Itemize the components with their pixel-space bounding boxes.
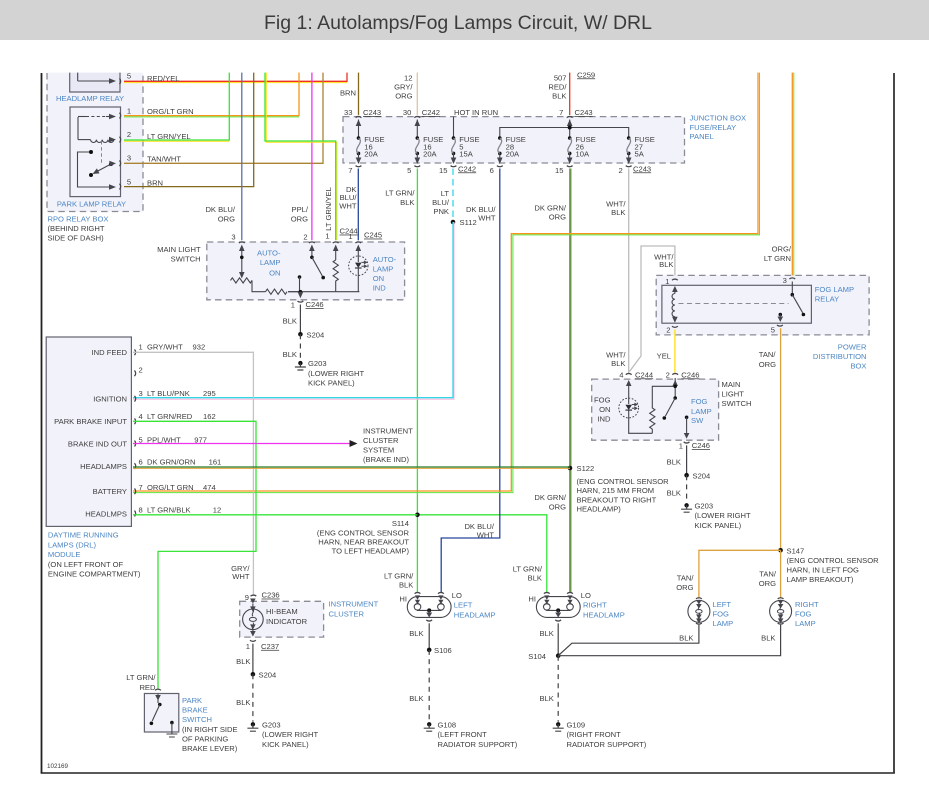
svg-text:C246: C246 <box>692 441 710 450</box>
svg-text:SWITCH: SWITCH <box>171 254 201 263</box>
svg-text:1: 1 <box>139 343 143 352</box>
svg-text:LT GRN/YEL: LT GRN/YEL <box>147 132 191 141</box>
svg-text:PARK BRAKE INPUT: PARK BRAKE INPUT <box>54 417 127 426</box>
svg-text:HOT IN RUN: HOT IN RUN <box>454 108 498 117</box>
splice S122 <box>568 464 669 513</box>
svg-text:ON: ON <box>599 405 610 414</box>
top clip band <box>0 40 929 73</box>
svg-text:FUSE/RELAY: FUSE/RELAY <box>690 123 737 132</box>
svg-text:3: 3 <box>783 276 787 285</box>
wire BLK dashed from S204 to G203 <box>236 674 253 722</box>
svg-text:C242: C242 <box>422 108 440 117</box>
internal feed rail from pin 7 to fuses 28/26/27 <box>500 120 629 139</box>
svg-text:HI: HI <box>528 595 536 604</box>
label DAYTIME RUNNING LAMPS (DRL) MODULE <box>48 531 141 579</box>
MLS pin 1 C245 <box>348 231 382 251</box>
RPO relay box (dashed, behind right side of dash) <box>47 71 143 212</box>
svg-text:LAMP: LAMP <box>691 407 712 416</box>
svg-text:1: 1 <box>665 277 669 286</box>
svg-text:LT GRN/: LT GRN/ <box>513 565 543 574</box>
svg-text:BATTERY: BATTERY <box>93 487 127 496</box>
fuse panel bottom pin 2 C243 <box>618 164 651 175</box>
svg-text:5A: 5A <box>635 150 645 159</box>
DRL pin 4 PARK BRAKE INPUT <box>54 412 216 426</box>
ground G108 (left front radiator support) <box>424 720 518 748</box>
wire DK BLU/ORG to main light switch pin 3 <box>205 71 241 240</box>
svg-text:PPL/: PPL/ <box>292 205 309 214</box>
wire BLK dashed from S204 to G203 <box>283 334 301 361</box>
park lamp relay pin 2 <box>120 130 132 143</box>
svg-text:S147: S147 <box>787 546 805 555</box>
svg-text:BLK: BLK <box>528 574 542 583</box>
svg-text:BREAKOUT TO RIGHT: BREAKOUT TO RIGHT <box>577 495 657 504</box>
svg-text:IND FEED: IND FEED <box>92 348 128 357</box>
fuse panel bottom pin 7 <box>348 166 361 175</box>
svg-text:LAMP: LAMP <box>713 619 734 628</box>
fuse panel top pin 30 C242 <box>403 108 440 126</box>
svg-text:POWER: POWER <box>838 342 867 351</box>
svg-text:15: 15 <box>555 166 563 175</box>
svg-text:LT BLU/PNK: LT BLU/PNK <box>147 389 190 398</box>
svg-text:ORG: ORG <box>549 502 566 511</box>
svg-text:12: 12 <box>404 73 412 82</box>
park lamp relay pin 5 <box>120 177 132 189</box>
svg-text:20A: 20A <box>506 150 520 159</box>
svg-text:BRAKE: BRAKE <box>182 706 208 715</box>
svg-text:12: 12 <box>213 505 221 514</box>
fog switch bottom pin 1 C246 <box>679 441 710 450</box>
instrument cluster box (hi-beam) <box>240 601 324 637</box>
right fog lamp <box>770 598 792 624</box>
svg-text:932: 932 <box>193 343 206 352</box>
svg-text:9: 9 <box>245 593 249 602</box>
wire ORG/LT GRN from DRL battery pin 7 up and over to top exit <box>133 71 760 493</box>
svg-text:LAMP: LAMP <box>795 619 816 628</box>
svg-text:ENGINE COMPARTMENT): ENGINE COMPARTMENT) <box>48 570 141 579</box>
park lamp relay actuator dashed link <box>101 141 103 163</box>
svg-text:G109: G109 <box>567 720 586 729</box>
DRL module box <box>46 337 131 526</box>
svg-text:162: 162 <box>203 412 216 421</box>
svg-text:RELAY: RELAY <box>815 294 839 303</box>
svg-text:(LEFT FRONT: (LEFT FRONT <box>438 730 488 739</box>
wire BLK bus from S104 to left fog lamp <box>558 625 699 656</box>
wire ORG/LT GRN into fog lamp relay pin 3 <box>764 71 794 278</box>
svg-text:BLK: BLK <box>679 634 693 643</box>
svg-text:30: 30 <box>403 108 411 117</box>
wire LT GRN/BLK from DRL pin 8 to S114 <box>133 514 417 516</box>
svg-text:8: 8 <box>139 505 143 514</box>
svg-text:G203: G203 <box>262 720 281 729</box>
svg-text:ORG/: ORG/ <box>772 245 792 254</box>
svg-text:HEADLAMP: HEADLAMP <box>454 611 496 620</box>
DRL pin 2 <box>135 365 143 376</box>
svg-text:SIDE OF DASH): SIDE OF DASH) <box>48 233 105 242</box>
svg-text:RIGHT: RIGHT <box>583 601 607 610</box>
svg-text:S204: S204 <box>307 330 325 339</box>
svg-text:BLK: BLK <box>283 350 297 359</box>
svg-text:C243: C243 <box>633 164 651 173</box>
svg-text:INSTRUMENT: INSTRUMENT <box>329 600 379 609</box>
svg-text:C242: C242 <box>458 164 476 173</box>
svg-text:2: 2 <box>666 325 670 334</box>
svg-text:33: 33 <box>344 108 352 117</box>
svg-text:RED/: RED/ <box>548 83 567 92</box>
svg-text:(BEHIND RIGHT: (BEHIND RIGHT <box>48 224 105 233</box>
svg-text:PARK LAMP RELAY: PARK LAMP RELAY <box>57 199 126 208</box>
wire TAN/ORG from fog relay pin 5 to S147 <box>759 328 781 550</box>
fog lamp relay pin 3 <box>783 276 796 285</box>
junction box fuse/relay panel box <box>343 117 685 163</box>
svg-text:TAN/: TAN/ <box>759 350 777 359</box>
park brake switch box <box>144 694 178 733</box>
svg-text:KICK PANEL): KICK PANEL) <box>308 378 355 387</box>
svg-text:ORG: ORG <box>218 214 235 223</box>
svg-text:2: 2 <box>303 232 307 241</box>
svg-text:HARN, IN LEFT FOG: HARN, IN LEFT FOG <box>787 565 860 574</box>
svg-text:CLUSTER: CLUSTER <box>329 610 365 619</box>
wire PPL/WHT from DRL pin 5 to instrument cluster (brake ind) <box>133 427 413 465</box>
svg-text:C246: C246 <box>681 370 699 379</box>
svg-text:RED: RED <box>139 683 156 692</box>
svg-text:7: 7 <box>559 108 563 117</box>
splice S147 <box>778 546 879 584</box>
park lamp relay pin 3 <box>120 154 132 167</box>
svg-text:S204: S204 <box>693 471 711 480</box>
svg-text:474: 474 <box>203 483 216 492</box>
svg-text:BLK: BLK <box>552 92 566 101</box>
splice S104 <box>528 652 560 661</box>
svg-text:IGNITION: IGNITION <box>93 394 127 403</box>
MLS auto-lamp on switch <box>298 251 325 292</box>
fuse 16 20A (second) <box>415 135 444 164</box>
svg-text:Fig 1: Autolamps/Fog Lamps Cir: Fig 1: Autolamps/Fog Lamps Circuit, W/ D… <box>264 12 652 34</box>
svg-text:WHT: WHT <box>232 572 250 581</box>
svg-text:BLK: BLK <box>761 634 775 643</box>
frame border left <box>41 73 43 773</box>
svg-text:WHT: WHT <box>478 213 496 222</box>
wire TAN/ORG from S147 to left fog lamp <box>676 550 780 597</box>
fuse panel bottom pin 5 <box>407 166 420 175</box>
svg-text:5: 5 <box>127 72 131 81</box>
svg-text:ORG/LT GRN: ORG/LT GRN <box>147 107 194 116</box>
frame border bottom <box>41 772 895 774</box>
svg-text:1: 1 <box>127 107 131 116</box>
svg-text:BLU/: BLU/ <box>432 198 450 207</box>
svg-text:BRN: BRN <box>340 88 356 97</box>
svg-text:(ENG CONTROL SENSOR: (ENG CONTROL SENSOR <box>317 528 410 537</box>
svg-text:BLK: BLK <box>667 458 681 467</box>
svg-text:HEADLAMPS: HEADLAMPS <box>80 462 127 471</box>
svg-text:RADIATOR SUPPORT): RADIATOR SUPPORT) <box>567 740 647 749</box>
svg-text:WHT: WHT <box>339 202 357 211</box>
svg-text:DAYTIME RUNNING: DAYTIME RUNNING <box>48 531 119 540</box>
MLS auto-lamp on indicator LED <box>349 251 368 292</box>
svg-text:FOG LAMP: FOG LAMP <box>815 285 854 294</box>
left fog lamp <box>688 598 710 624</box>
svg-text:ORG: ORG <box>291 214 308 223</box>
svg-text:HEADLAMP): HEADLAMP) <box>577 505 622 514</box>
ground G203 (lower right kick panel, hi-beam) <box>247 720 318 748</box>
wire RED/BLK into fuse panel pin 7 C243 <box>548 70 595 115</box>
wire LT BLU/PNK dashed from fuse 15 C242 to S112 <box>432 169 453 223</box>
splice S204 (fog switch) <box>684 471 710 480</box>
fog lamp relay actuator dashed link <box>679 302 789 304</box>
frame border right <box>893 73 895 773</box>
svg-text:JUNCTION BOX: JUNCTION BOX <box>690 114 747 123</box>
svg-text:LT GRN/: LT GRN/ <box>384 572 414 581</box>
svg-text:BLK: BLK <box>400 198 414 207</box>
DRL pin 6 HEADLAMPS <box>80 458 221 472</box>
svg-text:PANEL: PANEL <box>690 132 714 141</box>
svg-text:DK BLU/: DK BLU/ <box>205 205 235 214</box>
svg-text:AUTO-: AUTO- <box>373 255 397 264</box>
svg-text:HI: HI <box>399 595 407 604</box>
svg-text:ON: ON <box>373 274 384 283</box>
svg-text:WHT: WHT <box>477 530 495 539</box>
fog lamp relay pin 1 <box>665 277 678 286</box>
fuse 26 10A <box>567 135 596 164</box>
svg-text:2: 2 <box>139 365 143 374</box>
svg-text:1: 1 <box>348 232 352 241</box>
svg-text:LT GRN/: LT GRN/ <box>126 673 156 682</box>
svg-text:BLK: BLK <box>539 694 553 703</box>
svg-text:TAN/: TAN/ <box>759 569 777 578</box>
svg-text:G203: G203 <box>695 501 714 510</box>
svg-text:RIGHT: RIGHT <box>795 600 819 609</box>
svg-text:7: 7 <box>139 483 143 492</box>
svg-text:(RIGHT FRONT: (RIGHT FRONT <box>567 730 622 739</box>
wire RED/YEL from headlamp relay pin 5 <box>124 71 347 83</box>
wire TAN/WHT from park lamp relay pin 3 <box>124 71 323 163</box>
ground G203 (lower right kick panel, autolamp) <box>295 359 365 387</box>
MLS pin 2 <box>303 232 314 251</box>
splice S114 <box>317 513 420 556</box>
ground G109 (right front radiator support) <box>553 720 647 748</box>
hi-beam pin 1 C237 <box>246 640 279 651</box>
svg-text:C243: C243 <box>363 108 381 117</box>
svg-text:BLK: BLK <box>611 208 625 217</box>
wire BLK dashed S106 to G108 <box>409 650 429 722</box>
fuse panel top pin 33 C243 <box>344 108 381 126</box>
MLS resistor <box>333 251 338 292</box>
svg-text:DK GRN/ORN: DK GRN/ORN <box>147 458 196 467</box>
svg-text:15: 15 <box>439 166 447 175</box>
svg-text:161: 161 <box>209 458 222 467</box>
svg-text:6: 6 <box>490 166 494 175</box>
wire DK BLU/WHT from fuse 28 to left headlamp LO <box>441 169 500 593</box>
svg-text:LO: LO <box>452 591 462 600</box>
svg-text:SW: SW <box>691 416 704 425</box>
svg-text:OF PARKING: OF PARKING <box>182 734 228 743</box>
svg-text:ON: ON <box>269 268 280 277</box>
svg-text:ORG/LT GRN: ORG/LT GRN <box>147 483 194 492</box>
svg-text:LT: LT <box>441 189 450 198</box>
svg-text:LEFT: LEFT <box>713 600 732 609</box>
wire BLK from C246 to S204 <box>283 305 301 335</box>
svg-text:ORG: ORG <box>759 579 776 588</box>
svg-text:BRAKE LEVER): BRAKE LEVER) <box>182 744 238 753</box>
label HOT IN RUN with feed line <box>454 108 499 138</box>
svg-text:ORG: ORG <box>549 212 566 221</box>
wire BLK dashed to G203 (fog switch) <box>667 475 687 503</box>
wire ORG/LT GRN from park lamp relay pin 1 <box>124 71 299 117</box>
headlamp relay box <box>70 71 120 92</box>
svg-text:BLK: BLK <box>236 657 250 666</box>
svg-text:GRY/WHT: GRY/WHT <box>147 343 183 352</box>
svg-text:DISTRIBUTION: DISTRIBUTION <box>813 352 867 361</box>
wire TAN/ORG from S147 to right fog lamp <box>759 550 781 597</box>
svg-text:5: 5 <box>407 166 411 175</box>
svg-text:(ENG CONTROL SENSOR: (ENG CONTROL SENSOR <box>577 477 670 486</box>
svg-text:C236: C236 <box>262 591 280 600</box>
fog main light switch box (dashed) <box>592 379 719 440</box>
svg-text:HARN, NEAR BREAKOUT: HARN, NEAR BREAKOUT <box>318 538 409 547</box>
svg-text:HEADLMPS: HEADLMPS <box>85 509 127 518</box>
ground G203 (lower right kick panel, fog switch) <box>681 501 751 529</box>
svg-text:1: 1 <box>291 301 295 310</box>
MLS pin 3 <box>231 232 244 251</box>
wire GRY/WHT from DRL pin 1 to hi-beam indicator <box>133 352 253 595</box>
svg-text:LT GRN/YEL: LT GRN/YEL <box>324 187 333 231</box>
hi-beam indicator lamp <box>243 599 264 637</box>
svg-text:2: 2 <box>666 370 670 379</box>
svg-text:(ENG CONTROL SENSOR: (ENG CONTROL SENSOR <box>787 556 880 565</box>
wire BLK from C237 to S204 <box>236 644 253 675</box>
wire LT GRN/BLK branch from S114 to right headlamp HI <box>417 515 546 593</box>
wire BLK fog switch to S204 <box>667 445 687 475</box>
DRL pin 3 IGNITION <box>93 389 215 403</box>
fuse 16 20A (first) <box>356 135 385 164</box>
svg-text:S122: S122 <box>577 464 595 473</box>
headlamp relay pin 5 <box>120 72 132 85</box>
svg-text:C245: C245 <box>364 231 382 240</box>
svg-text:C243: C243 <box>575 108 593 117</box>
svg-text:102169: 102169 <box>47 763 69 770</box>
svg-text:5: 5 <box>771 325 775 334</box>
svg-text:MAIN LIGHT: MAIN LIGHT <box>157 245 201 254</box>
svg-text:(LOWER RIGHT: (LOWER RIGHT <box>308 369 364 378</box>
wire LT GRN/RED from DRL pin 4 to park brake switch <box>133 421 256 689</box>
wire LT BLU/PNK from S112 to DRL ignition pin 3 <box>133 222 454 399</box>
fog lamp relay box <box>662 285 812 323</box>
fuse 28 20A <box>497 135 526 164</box>
svg-text:5: 5 <box>127 177 131 186</box>
fog on indicator LED <box>619 380 653 433</box>
label PARK BRAKE SWITCH <box>182 696 238 753</box>
svg-text:LT GRN/: LT GRN/ <box>385 188 415 197</box>
fuse panel bottom pin 15 C242 <box>439 164 476 175</box>
svg-text:(IN RIGHT SIDE: (IN RIGHT SIDE <box>182 725 238 734</box>
svg-text:LAMP BREAKOUT): LAMP BREAKOUT) <box>787 575 854 584</box>
svg-text:4: 4 <box>139 412 143 421</box>
svg-text:BOX: BOX <box>850 361 866 370</box>
svg-text:(ON LEFT FRONT OF: (ON LEFT FRONT OF <box>48 560 124 569</box>
park brake switch contacts <box>150 694 178 737</box>
svg-text:ORG: ORG <box>676 583 693 592</box>
svg-text:BRAKE IND OUT: BRAKE IND OUT <box>68 439 127 448</box>
svg-text:TAN/: TAN/ <box>677 573 695 582</box>
park brake switch pin <box>155 689 161 690</box>
svg-text:4: 4 <box>619 370 623 379</box>
svg-text:1: 1 <box>325 232 329 241</box>
svg-text:2: 2 <box>618 166 622 175</box>
park lamp relay switch <box>78 150 117 190</box>
svg-text:(LOWER RIGHT: (LOWER RIGHT <box>262 730 318 739</box>
svg-text:SWITCH: SWITCH <box>182 715 212 724</box>
svg-text:3: 3 <box>127 154 131 163</box>
wire YEL from fog relay pin 2 to fog lamp switch <box>657 330 675 373</box>
svg-text:BLK: BLK <box>409 629 423 638</box>
svg-text:KICK PANEL): KICK PANEL) <box>262 740 309 749</box>
svg-text:FOG: FOG <box>713 610 730 619</box>
svg-text:BLK: BLK <box>283 317 297 326</box>
MLS pin 1 C244 <box>325 227 357 251</box>
svg-text:15A: 15A <box>459 150 473 159</box>
right headlamp <box>528 591 624 621</box>
fog lamp relay switch <box>778 282 806 323</box>
svg-text:(BRAKE IND): (BRAKE IND) <box>363 455 409 464</box>
park lamp relay pin 1 <box>120 107 132 119</box>
wire DK GRN/ORG from fuse 26 through S122 to right headlamp LO <box>534 169 571 593</box>
svg-text:INSTRUMENT: INSTRUMENT <box>363 427 413 436</box>
svg-text:BLK: BLK <box>667 488 681 497</box>
svg-text:LT GRN: LT GRN <box>764 254 791 263</box>
svg-text:6: 6 <box>139 458 143 467</box>
svg-text:HEADLAMP RELAY: HEADLAMP RELAY <box>56 94 124 103</box>
svg-text:LT GRN/RED: LT GRN/RED <box>147 412 193 421</box>
svg-text:HEADLAMP: HEADLAMP <box>583 611 625 620</box>
svg-text:FOG: FOG <box>795 610 812 619</box>
svg-text:INDICATOR: INDICATOR <box>266 617 308 626</box>
main light switch box (autolamp) <box>207 242 405 300</box>
wire DK GRN/ORN from DRL pin 6 to S122 <box>133 467 570 468</box>
wire LT GRN/YEL from park lamp relay pin 2 <box>124 71 229 141</box>
svg-text:S114: S114 <box>392 519 409 528</box>
svg-text:20A: 20A <box>423 150 437 159</box>
svg-text:IND: IND <box>597 415 611 424</box>
fog switch resistor <box>650 386 676 433</box>
park lamp relay contact pin1 <box>78 114 116 140</box>
svg-text:RADIATOR SUPPORT): RADIATOR SUPPORT) <box>438 740 518 749</box>
svg-text:PNK: PNK <box>433 207 449 216</box>
svg-text:2: 2 <box>127 130 131 139</box>
svg-text:SWITCH: SWITCH <box>722 399 752 408</box>
fog switch pin 2 C246 <box>666 370 700 379</box>
wire BRN into fuse panel pin 33 C243 <box>340 71 359 115</box>
DRL pin 8 HEADLMPS <box>85 505 221 518</box>
wire LT GRN/BLK from fuse 5 down to S114 and left headlamp HI <box>385 169 417 593</box>
left headlamp <box>399 591 495 621</box>
fuse 27 5A <box>626 135 655 164</box>
svg-text:SYSTEM: SYSTEM <box>363 446 394 455</box>
hi-beam indicator pin 9 C236 <box>245 591 280 602</box>
wire BRN from park lamp relay pin 5 <box>124 71 254 187</box>
splice S204 (autolamp) <box>298 330 324 339</box>
svg-text:TAN/WHT: TAN/WHT <box>147 154 181 163</box>
fog lamp relay pin 2 <box>666 325 678 334</box>
svg-text:LEFT: LEFT <box>454 601 473 610</box>
DRL pin 5 BRAKE IND OUT <box>68 435 207 448</box>
svg-text:C246: C246 <box>306 300 324 309</box>
svg-text:7: 7 <box>348 166 352 175</box>
svg-text:G108: G108 <box>438 720 457 729</box>
fuse panel top pin 7 C243 <box>559 108 592 126</box>
wire DK BLU/WHT from fuse 16 to C245 <box>339 169 358 241</box>
svg-text:BLK: BLK <box>236 698 250 707</box>
svg-text:295: 295 <box>203 389 216 398</box>
svg-text:TO LEFT HEADLAMP): TO LEFT HEADLAMP) <box>332 547 410 556</box>
